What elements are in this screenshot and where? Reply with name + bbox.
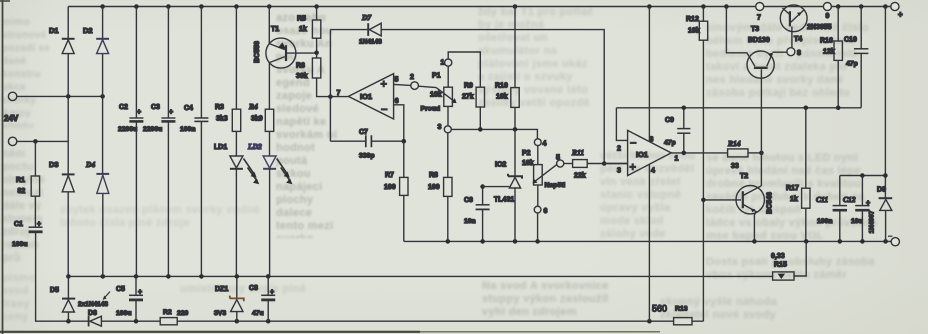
wire op-amp out pin5 to terminal 2 xyxy=(394,74,437,89)
svg-text:C12: C12 xyxy=(843,195,856,204)
resistor R7 xyxy=(384,141,408,241)
svg-text:D9: D9 xyxy=(877,187,886,194)
diode D3 xyxy=(49,96,75,276)
svg-text:4: 4 xyxy=(543,141,547,148)
wire pin2 feedback xyxy=(616,108,627,141)
scan border left xyxy=(2,0,4,334)
svg-text:T2: T2 xyxy=(740,173,748,180)
terminal 9 xyxy=(823,3,831,21)
capacitor C6 xyxy=(464,187,490,242)
node T2 base junction xyxy=(701,198,706,203)
svg-text:47u: 47u xyxy=(252,310,264,317)
wire pin1 output xyxy=(671,152,727,154)
node top bus junctions xyxy=(100,4,887,9)
node reference row junctions xyxy=(478,127,517,132)
capacitor C11 xyxy=(816,176,847,242)
svg-text:+: + xyxy=(138,289,142,296)
svg-text:BD139: BD139 xyxy=(748,37,770,44)
svg-text:27k: 27k xyxy=(462,94,474,101)
svg-text:1N4148: 1N4148 xyxy=(359,39,382,46)
resistor R12 xyxy=(686,7,708,322)
terminal 24V input B xyxy=(4,114,68,146)
svg-text:LD1: LD1 xyxy=(214,144,227,151)
svg-text:9: 9 xyxy=(826,13,830,20)
capacitor C5 xyxy=(116,276,143,321)
wire pin4 to bottom bus xyxy=(648,164,650,321)
svg-text:+: + xyxy=(630,162,636,174)
svg-text:TL431: TL431 xyxy=(494,197,514,204)
node T1 base junction xyxy=(314,51,319,56)
svg-text:560: 560 xyxy=(652,304,667,314)
capacitor C4 xyxy=(180,7,208,277)
diode D5 xyxy=(50,276,75,321)
resistor R17 xyxy=(786,108,810,242)
svg-text:10k: 10k xyxy=(430,92,442,99)
svg-text:IO2: IO2 xyxy=(495,162,506,169)
svg-text:100: 100 xyxy=(428,184,440,191)
svg-text:47p: 47p xyxy=(664,140,676,147)
svg-text:10k: 10k xyxy=(496,94,508,101)
diode D2 xyxy=(83,7,109,97)
resistor R2 xyxy=(160,309,188,325)
svg-text:4: 4 xyxy=(651,168,655,175)
resistor R6 xyxy=(296,53,348,97)
svg-text:220: 220 xyxy=(177,310,189,317)
svg-text:C10: C10 xyxy=(844,37,857,44)
potentiometer P1 xyxy=(421,52,481,133)
svg-text:T3: T3 xyxy=(751,26,759,33)
svg-text:2200u: 2200u xyxy=(143,126,162,133)
svg-text:8: 8 xyxy=(797,50,801,57)
svg-text:R2: R2 xyxy=(163,309,172,316)
svg-text:2200u: 2200u xyxy=(118,126,137,133)
wire compensation node xyxy=(616,107,861,109)
terminal 7 xyxy=(756,3,764,22)
svg-text:R17: R17 xyxy=(786,185,799,192)
diode D1 xyxy=(49,7,75,97)
node bottom bus junctions xyxy=(66,319,652,324)
resistor R14 xyxy=(727,139,761,170)
svg-text:R6: R6 xyxy=(296,63,305,70)
svg-text:R9: R9 xyxy=(464,83,473,90)
svg-text:7: 7 xyxy=(757,15,761,22)
transistor T2 BC546 xyxy=(703,153,773,242)
svg-text:D3: D3 xyxy=(49,160,59,169)
label 2x1N4148 xyxy=(78,292,110,309)
transistor T3 BD139 xyxy=(726,7,787,79)
node pin3 junction xyxy=(602,161,607,166)
svg-text:C8: C8 xyxy=(249,285,258,292)
resistor R15 xyxy=(771,241,806,280)
svg-text:BC546: BC546 xyxy=(767,192,774,214)
svg-text:10n: 10n xyxy=(464,218,476,225)
resistor R13 xyxy=(652,304,692,325)
svg-text:330p: 330p xyxy=(359,153,375,160)
wire pin6 drop xyxy=(394,105,404,141)
resistor R9 xyxy=(462,83,485,130)
svg-text:C2: C2 xyxy=(119,104,128,111)
svg-text:C9: C9 xyxy=(665,117,674,124)
wire output minus row xyxy=(404,240,891,242)
svg-text:3k3: 3k3 xyxy=(216,116,228,123)
diode D6 xyxy=(88,310,101,326)
resistor R4 xyxy=(248,102,274,156)
svg-text:+: + xyxy=(866,200,870,207)
node C7 junction xyxy=(402,139,407,144)
svg-text:10u: 10u xyxy=(851,218,863,225)
svg-text:3: 3 xyxy=(438,124,442,131)
svg-text:C3: C3 xyxy=(151,104,160,111)
svg-text:100u: 100u xyxy=(12,241,28,248)
node mid bus junctions xyxy=(66,274,270,279)
transistor T1 BC556 xyxy=(254,7,317,110)
svg-text:2: 2 xyxy=(617,146,621,153)
svg-text:2: 2 xyxy=(410,74,414,81)
svg-text:C7: C7 xyxy=(359,129,368,136)
svg-text:C11: C11 xyxy=(816,195,828,204)
node output minus junctions xyxy=(446,239,888,244)
wire reference row xyxy=(451,129,537,138)
capacitor C3 xyxy=(143,7,175,277)
terminal 8 xyxy=(787,48,801,57)
wire pin8 supply xyxy=(648,7,650,142)
node compensation junctions xyxy=(682,106,841,111)
transistor T4 2N3055 xyxy=(780,5,831,48)
node pin7 junction xyxy=(328,94,333,99)
svg-text:+: + xyxy=(381,79,387,91)
svg-text:R7: R7 xyxy=(385,172,394,179)
svg-text:3k9: 3k9 xyxy=(251,116,263,123)
svg-text:DZ1: DZ1 xyxy=(215,286,228,293)
svg-text:100: 100 xyxy=(384,184,396,191)
svg-text:R11: R11 xyxy=(571,148,584,157)
svg-text:C6: C6 xyxy=(464,197,473,204)
op-amp IO1a xyxy=(337,74,399,119)
svg-text:33: 33 xyxy=(731,163,739,170)
wire output rail right xyxy=(884,7,886,199)
svg-text:Proud: Proud xyxy=(421,106,441,113)
svg-text:3: 3 xyxy=(617,168,621,175)
svg-text:P2: P2 xyxy=(522,150,531,157)
LED LD1 xyxy=(214,144,259,276)
bleedthrough text layer xyxy=(2,16,60,128)
svg-text:R8: R8 xyxy=(429,172,438,179)
svg-text:1N4007: 1N4007 xyxy=(869,210,876,233)
potentiometer P1 wiper arrow xyxy=(436,88,456,104)
terminal 6 xyxy=(534,206,547,241)
svg-text:1k: 1k xyxy=(790,196,798,203)
wire top supply bus xyxy=(68,6,890,8)
diode D9 xyxy=(869,187,893,242)
capacitor C8 xyxy=(249,276,275,321)
svg-text:P1: P1 xyxy=(432,73,441,80)
svg-text:+: + xyxy=(270,289,274,296)
svg-text:R14: R14 xyxy=(727,139,741,148)
svg-text:C5: C5 xyxy=(116,286,125,293)
svg-text:Napěti: Napěti xyxy=(545,182,566,189)
terminal + output xyxy=(891,2,903,19)
svg-text:100n: 100n xyxy=(817,218,833,225)
svg-text:R12: R12 xyxy=(686,16,699,23)
svg-text:LD2: LD2 xyxy=(247,142,262,151)
svg-text:24V: 24V xyxy=(4,114,19,123)
terminal 24V input A xyxy=(8,92,102,100)
svg-text:10k: 10k xyxy=(688,28,700,35)
svg-text:22k: 22k xyxy=(574,173,586,180)
svg-text:6: 6 xyxy=(544,208,548,215)
terminal 4 xyxy=(534,139,546,148)
wire bottom bus xyxy=(36,232,704,321)
svg-text:D7: D7 xyxy=(361,13,371,22)
svg-text:D2: D2 xyxy=(83,26,93,35)
terminal 5 xyxy=(556,155,564,168)
svg-text:R3: R3 xyxy=(215,104,224,111)
svg-text:2N3055: 2N3055 xyxy=(807,24,832,31)
diode D7 1N4148 xyxy=(330,13,604,164)
svg-text:0,33: 0,33 xyxy=(771,253,785,260)
svg-text:T4: T4 xyxy=(794,36,802,43)
svg-text:100u: 100u xyxy=(116,310,132,317)
svg-text:D5: D5 xyxy=(50,287,59,294)
svg-text:R13: R13 xyxy=(675,306,688,313)
svg-text:+: + xyxy=(37,221,41,228)
LED LD2 xyxy=(247,142,292,276)
zener DZ1 xyxy=(214,276,244,321)
resistor R11 xyxy=(564,148,628,180)
svg-text:R1: R1 xyxy=(16,177,25,184)
resistor R3 xyxy=(215,7,241,156)
svg-text:100n: 100n xyxy=(180,126,196,133)
wire pin3 input xyxy=(604,163,627,165)
svg-text:82: 82 xyxy=(18,188,26,195)
svg-text:R5: R5 xyxy=(297,16,306,23)
svg-text:D1: D1 xyxy=(49,26,59,35)
TL431 IO2 xyxy=(483,129,522,241)
node input junctions xyxy=(33,94,105,144)
svg-text:47p: 47p xyxy=(846,61,858,68)
resistor R5 xyxy=(297,7,321,53)
svg-text:−: − xyxy=(381,104,387,116)
svg-text:+: + xyxy=(137,109,141,116)
potentiometer P2 wiper arrow xyxy=(532,165,556,184)
svg-text:T1: T1 xyxy=(271,26,279,33)
svg-text:3V3: 3V3 xyxy=(214,310,226,317)
op-amp IO1b xyxy=(617,130,679,175)
resistor R10 xyxy=(495,7,519,130)
svg-text:1k: 1k xyxy=(299,26,307,33)
node pin1 junction xyxy=(682,151,687,156)
svg-text:D4: D4 xyxy=(85,160,95,169)
wire ground bus mid xyxy=(68,275,772,277)
diode D4 xyxy=(85,96,109,276)
svg-text:D6: D6 xyxy=(88,310,97,317)
svg-text:C4: C4 xyxy=(184,105,193,112)
svg-text:30k: 30k xyxy=(296,73,308,80)
resistor R1 xyxy=(16,141,40,227)
potentiometer P2 xyxy=(522,146,565,207)
capacitor C2 xyxy=(118,7,143,277)
resistor R16 xyxy=(820,7,842,108)
wire output top row xyxy=(840,175,886,177)
svg-text:−: − xyxy=(630,138,636,150)
capacitor C12 xyxy=(843,176,870,242)
svg-text:+: + xyxy=(169,109,173,116)
svg-text:10k: 10k xyxy=(522,160,534,167)
svg-text:5: 5 xyxy=(395,77,399,84)
svg-text:R16: R16 xyxy=(820,38,833,45)
svg-text:1: 1 xyxy=(675,156,679,163)
svg-text:12k: 12k xyxy=(823,49,835,56)
capacitor C7 xyxy=(330,129,403,160)
capacitor C9 xyxy=(664,108,690,153)
node C6 junction xyxy=(480,184,485,189)
node output top junctions xyxy=(860,173,888,178)
svg-text:+: + xyxy=(898,10,903,19)
svg-text:BC556: BC556 xyxy=(254,41,261,63)
svg-text:IO1: IO1 xyxy=(636,150,648,159)
node R14 junction xyxy=(759,151,764,156)
svg-text:R4: R4 xyxy=(248,102,258,111)
svg-text:R15: R15 xyxy=(774,262,787,269)
terminal minus output xyxy=(888,236,899,246)
svg-text:1: 1 xyxy=(441,60,445,67)
capacitor C1 xyxy=(12,221,43,248)
scan border bottom xyxy=(0,331,660,333)
svg-text:C1: C1 xyxy=(14,221,23,228)
svg-text:7: 7 xyxy=(337,90,341,97)
svg-text:IO1: IO1 xyxy=(360,92,372,101)
scan border top left nick xyxy=(0,0,10,2)
wire D7 left leg xyxy=(329,30,331,142)
svg-text:5: 5 xyxy=(556,155,560,162)
wire T3 base drop xyxy=(760,69,762,153)
svg-text:2x1N4148: 2x1N4148 xyxy=(78,301,108,308)
svg-text:R10: R10 xyxy=(495,83,508,90)
capacitor C10 xyxy=(844,7,868,108)
resistor R8 xyxy=(428,133,452,242)
